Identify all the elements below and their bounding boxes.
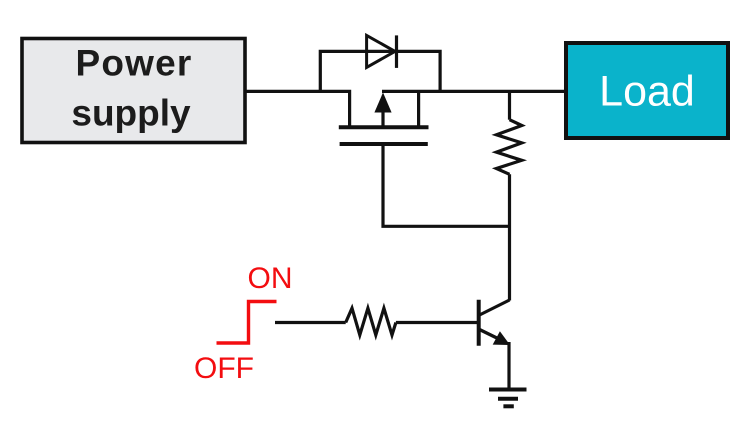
resistor R2 (base resistor, horizontal) (346, 308, 396, 335)
wire: power supply to MOSFET source (245, 91, 350, 127)
gate plate (340, 142, 428, 146)
wire: emitter down to ground (507, 342, 510, 389)
wire: signal to base resistor (275, 321, 346, 324)
wire: diode loop (anode/cathode risers and top rail) (320, 51, 440, 91)
diode D1 (body diode) (367, 35, 397, 68)
svg-text:supply: supply (71, 93, 191, 134)
transistor Q2 (NPN) (479, 300, 510, 346)
ground (489, 390, 527, 407)
step waveform (control signal) (217, 302, 277, 344)
wire: MOSFET drain to Load (output rail) (382, 90, 564, 93)
svg-text:Power: Power (75, 43, 192, 84)
svg-text:ON: ON (248, 262, 293, 295)
svg-text:Load: Load (599, 68, 695, 116)
channel bar (339, 125, 429, 129)
power supply box (22, 39, 245, 143)
body arrow (381, 106, 384, 127)
svg-text:OFF: OFF (194, 352, 254, 385)
wire: gate down and right to node (383, 146, 510, 226)
resistor R1 (gate pull-up, vertical) (496, 91, 521, 300)
emitter arrowhead (493, 331, 510, 345)
emitter diagonal (480, 330, 504, 342)
transistor Q1 (P-channel MOSFET) (339, 93, 429, 145)
load box (566, 43, 728, 138)
collector diagonal (480, 300, 510, 315)
wire: resistor to base (396, 321, 477, 324)
wire: MOSFET drain stub (417, 91, 420, 127)
base bar (477, 300, 481, 346)
